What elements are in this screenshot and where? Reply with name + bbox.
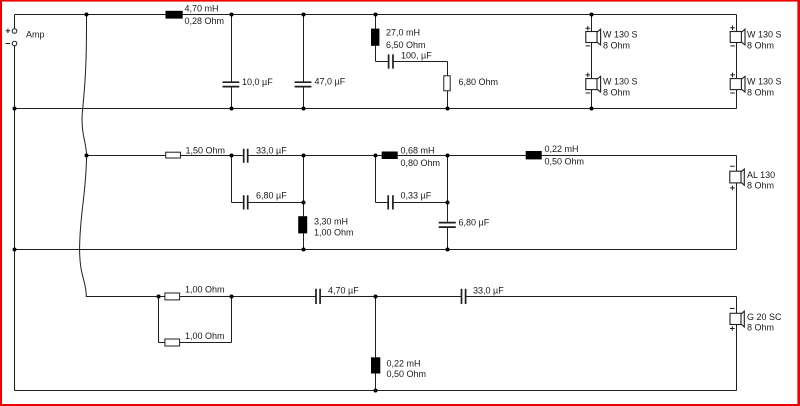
wire branch L2 RC xyxy=(376,15,448,109)
capacitor C7 4,70 uF xyxy=(316,286,359,304)
inductor L2 27,0 mH xyxy=(371,28,426,51)
node top bottom rail junctions xyxy=(13,107,594,111)
svg-text:8 Ohm: 8 Ohm xyxy=(747,323,774,333)
svg-text:0,28 Ohm: 0,28 Ohm xyxy=(185,16,225,26)
svg-text:8 Ohm: 8 Ohm xyxy=(747,181,774,191)
capacitor C2 47,0 uF xyxy=(295,77,346,87)
svg-text:10,0 µF: 10,0 µF xyxy=(242,77,273,87)
svg-text:W 130 S: W 130 S xyxy=(747,77,782,87)
svg-text:0,22 mH: 0,22 mH xyxy=(545,144,579,154)
inductor L3 0,68 mH xyxy=(382,146,440,169)
wire branch C2 xyxy=(303,15,305,109)
inductor L6 0,22 mH xyxy=(371,357,426,379)
svg-text:3,30 mH: 3,30 mH xyxy=(314,217,348,227)
svg-text:0,68 mH: 0,68 mH xyxy=(401,146,435,156)
capacitor C1 10,0 uF xyxy=(223,77,274,87)
wire bottom parallel resistors loop xyxy=(159,297,232,343)
svg-text:Amp: Amp xyxy=(26,30,45,40)
wire mid vertical C5 xyxy=(447,156,449,250)
wire branch C1 xyxy=(231,15,233,109)
capacitor C6 0,33 uF xyxy=(388,191,432,210)
inductor L5 0,22 mH xyxy=(526,144,584,167)
svg-text:W 130 S: W 130 S xyxy=(603,30,638,40)
svg-text:6,80 Ohm: 6,80 Ohm xyxy=(459,77,499,87)
svg-text:6,50 Ohm: 6,50 Ohm xyxy=(386,40,426,50)
speaker SP3 W 130 S xyxy=(730,26,781,51)
svg-text:1,00 Ohm: 1,00 Ohm xyxy=(314,228,354,238)
svg-text:8 Ohm: 8 Ohm xyxy=(603,88,630,98)
node mid rail junctions xyxy=(85,154,450,158)
node mid bottom rail junctions xyxy=(13,248,450,252)
wire branch speakers left column xyxy=(591,15,593,109)
capacitor C3 100 uF xyxy=(389,51,433,69)
wire amp plus lead xyxy=(14,15,16,29)
wire curvy feed xyxy=(80,15,159,297)
wire amp minus lead / left vertical xyxy=(14,46,16,391)
speaker SP4 W 130 S xyxy=(730,73,781,98)
svg-text:AL 130: AL 130 xyxy=(747,170,775,180)
capacitor C5 6,80 uF xyxy=(439,218,490,228)
inductor L4 3,30 mH xyxy=(298,216,353,238)
wire bottom right drop xyxy=(736,297,738,391)
speaker SP6 G 20 SC xyxy=(730,309,782,333)
wire bottom feed xyxy=(159,296,737,298)
resistor R4 1,00 Ohm xyxy=(165,331,225,346)
wire mid rail xyxy=(87,155,737,157)
node bottom feed junctions xyxy=(157,295,378,299)
speaker SP1 W 130 S xyxy=(586,26,638,51)
capacitor C4 33,0 uF xyxy=(244,146,288,163)
svg-text:0,22 mH: 0,22 mH xyxy=(387,359,421,369)
svg-text:6,80 µF: 6,80 µF xyxy=(256,191,287,201)
svg-text:4,70 µF: 4,70 µF xyxy=(328,286,359,296)
svg-text:1,00 Ohm: 1,00 Ohm xyxy=(185,285,225,295)
resistor R2 6,80 Ohm xyxy=(444,76,498,91)
wire mid vertical L4 xyxy=(303,156,305,250)
speaker SP5 AL 130 xyxy=(730,166,775,191)
node bottom rail junction xyxy=(374,389,378,393)
svg-text:1,00 Ohm: 1,00 Ohm xyxy=(185,331,225,341)
svg-text:8 Ohm: 8 Ohm xyxy=(747,88,774,98)
svg-text:1,50 Ohm: 1,50 Ohm xyxy=(186,146,226,156)
wire mid parallel cap 0,33 xyxy=(376,156,448,203)
svg-text:47,0 µF: 47,0 µF xyxy=(315,77,346,87)
svg-text:0,50 Ohm: 0,50 Ohm xyxy=(545,157,585,167)
svg-text:G 20 SC: G 20 SC xyxy=(747,312,782,322)
wire top section bottom rail xyxy=(15,108,737,110)
wire mid bottom rail xyxy=(15,249,737,251)
node mid sub junctions xyxy=(302,201,450,205)
capacitor C4b 6,80 uF xyxy=(244,191,288,210)
svg-text:33,0 µF: 33,0 µF xyxy=(256,146,287,156)
wire top right drop xyxy=(736,15,738,109)
svg-text:8 Ohm: 8 Ohm xyxy=(747,41,774,51)
svg-text:100, µF: 100, µF xyxy=(401,51,432,61)
amp terminal minus xyxy=(6,41,17,46)
svg-text:0,33 µF: 0,33 µF xyxy=(401,191,432,201)
wire bottom rail xyxy=(15,390,737,392)
svg-text:27,0 mH: 27,0 mH xyxy=(386,28,420,38)
resistor R3 1,00 Ohm xyxy=(165,285,225,300)
svg-text:W 130 S: W 130 S xyxy=(747,30,782,40)
svg-text:6,80 µF: 6,80 µF xyxy=(459,218,490,228)
resistor R1 1,50 Ohm xyxy=(166,146,225,158)
svg-text:4,70 mH: 4,70 mH xyxy=(185,3,219,13)
inductor L1 4,70 mH xyxy=(166,3,225,25)
svg-text:8 Ohm: 8 Ohm xyxy=(603,41,630,51)
wire mid right drop xyxy=(736,156,738,250)
wire mid parallel cap 6,80 xyxy=(232,156,304,203)
wire bottom vertical L6 xyxy=(375,297,377,391)
svg-text:0,50 Ohm: 0,50 Ohm xyxy=(387,369,427,379)
wire top rail xyxy=(15,14,737,16)
node top rail junctions xyxy=(85,13,594,17)
svg-text:33,0 µF: 33,0 µF xyxy=(473,286,504,296)
amp terminal plus xyxy=(6,29,17,34)
svg-text:0,80 Ohm: 0,80 Ohm xyxy=(401,158,441,168)
capacitor C8 33,0 uF xyxy=(462,286,505,304)
speaker SP2 W 130 S xyxy=(586,73,638,98)
svg-text:W 130 S: W 130 S xyxy=(603,77,638,87)
